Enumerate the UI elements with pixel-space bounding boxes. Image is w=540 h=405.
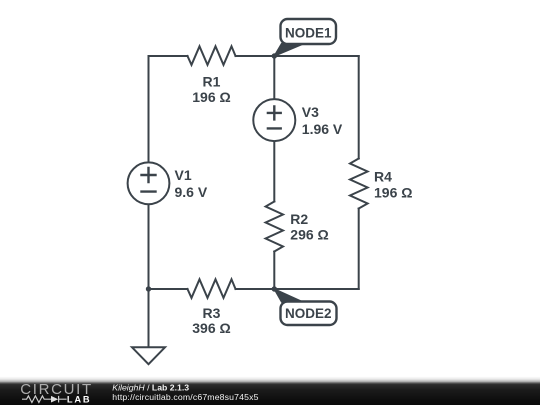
svg-text:396 Ω: 396 Ω: [192, 320, 230, 336]
svg-text:296 Ω: 296 Ω: [290, 227, 328, 243]
svg-text:R2: R2: [290, 211, 308, 227]
svg-text:196 Ω: 196 Ω: [374, 185, 412, 201]
svg-text:NODE2: NODE2: [285, 306, 332, 321]
svg-text:NODE1: NODE1: [285, 26, 332, 41]
svg-text:1.96 V: 1.96 V: [302, 121, 343, 137]
svg-text:196 Ω: 196 Ω: [192, 89, 230, 105]
svg-text:9.6 V: 9.6 V: [175, 184, 208, 200]
svg-text:KileighH / Lab 2.1.3: KileighH / Lab 2.1.3: [112, 382, 189, 392]
svg-text:R1: R1: [203, 74, 221, 90]
svg-text:R3: R3: [203, 305, 221, 321]
svg-text:LAB: LAB: [67, 394, 92, 404]
svg-text:http://circuitlab.com/c67me8su: http://circuitlab.com/c67me8su745x5: [112, 392, 258, 402]
svg-text:R4: R4: [374, 169, 392, 185]
svg-text:V1: V1: [175, 167, 192, 183]
svg-text:V3: V3: [302, 104, 319, 120]
